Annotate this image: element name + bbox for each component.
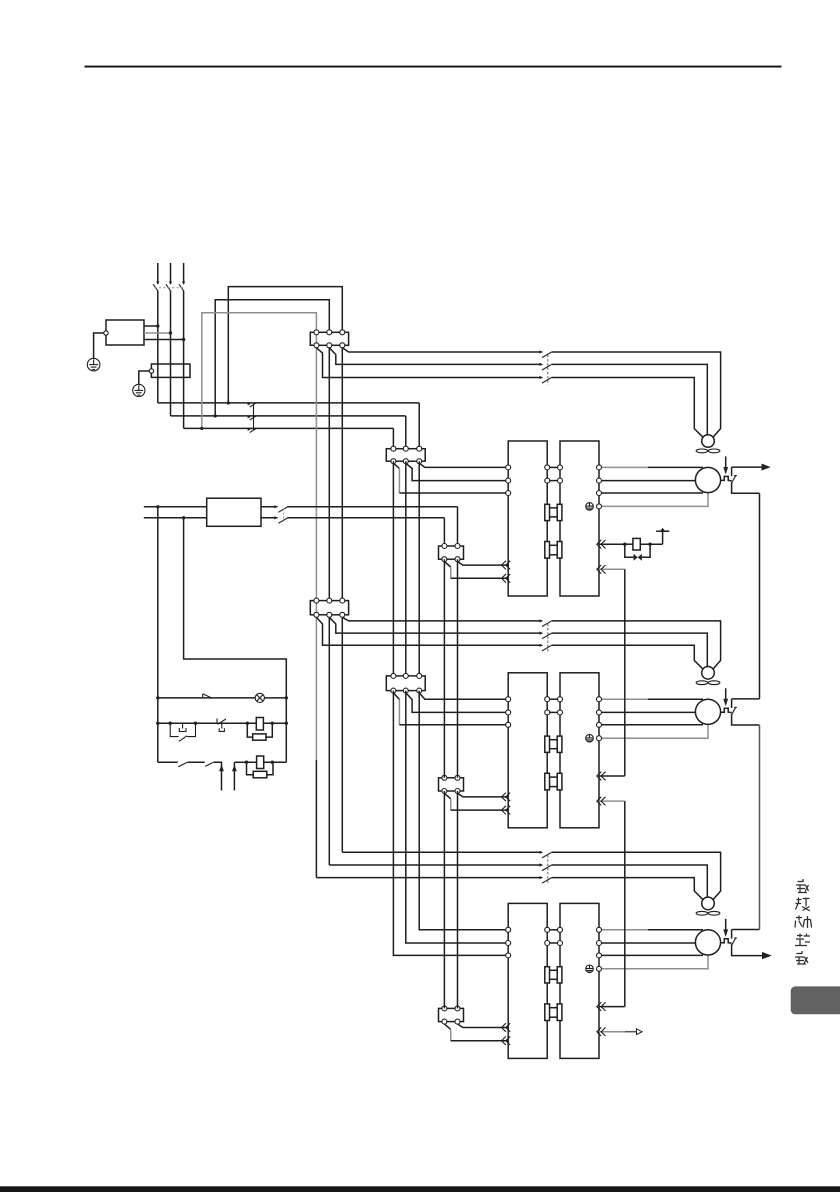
TB3 terminals (314, 598, 345, 617)
vertical chapter label 接线和连接 (795, 879, 812, 964)
unit1 run output arrow (760, 466, 763, 468)
ground symbol 1 (87, 358, 100, 371)
right margin tab (791, 986, 840, 1014)
phase bus 1 horizontal (158, 402, 419, 404)
inter-unit run feed: unit2 to unit3 (759, 725, 761, 930)
controller switch linkage (dashed) (283, 509, 285, 522)
wire A continues below TB2 (341, 345, 343, 600)
rung2 pressure switch 2 (217, 719, 226, 732)
junction dots (156, 324, 652, 764)
wire B continues below TB2 (328, 345, 330, 600)
controller box (207, 498, 261, 526)
TB1 terminals (391, 446, 422, 464)
incoming phase line L2 (170, 263, 172, 284)
control rung 3 (158, 761, 178, 763)
riser wire C to bundle (gray) (202, 313, 317, 615)
pressure sensor input arrows (219, 765, 224, 772)
TB3 wire to unit2 fan line 1 (342, 617, 539, 621)
TB1 wire to unit1 input 2 (406, 463, 508, 480)
unit3 thermostat chain tail with open arrow (625, 1031, 637, 1033)
noise filter box 1 (106, 320, 144, 345)
TB3 wire to unit2 fan line 3 (316, 617, 539, 645)
frame connection T-bar (662, 531, 664, 544)
riser wire B to bundle (215, 300, 329, 416)
inter-unit run feed: unit1 to unit2 (759, 493, 761, 699)
relay coil 2 (257, 756, 264, 769)
TB3 wire to unit2 fan line 2 (329, 617, 539, 633)
thermal fuse bypass loop (625, 544, 634, 557)
TB2 wire to fan line 3 (316, 348, 539, 378)
unit1 fan wires to funnel (552, 352, 721, 437)
thermostat element (633, 538, 640, 550)
TB1 wire to unit1 input 3 (gray riser) (393, 463, 399, 468)
phase bus 2 horizontal (171, 415, 406, 417)
TB4 wire to unit2 input 1 (419, 693, 508, 700)
unit2 fan wires to funnel (552, 621, 721, 669)
top rule (85, 66, 782, 68)
bottom page edge bar (0, 1186, 840, 1192)
pilot lamp (255, 693, 264, 702)
TB1 wire to unit1 input 1 (419, 463, 508, 467)
box1 wire to L1 (144, 325, 158, 327)
terminal block TB4 (386, 676, 425, 691)
box1 wire to L3 (144, 339, 184, 341)
control left rail (157, 507, 159, 762)
box2 earth wire (139, 371, 149, 384)
phase bus drop 2 to TB1 (405, 416, 407, 449)
phase bus drop 1 to TB1 (418, 403, 420, 449)
compressor unit 3 (439, 897, 760, 1058)
controller output line 2 with switch (261, 517, 278, 519)
box1 wire to L2 (gray) (144, 332, 171, 334)
relay coil 1 (256, 718, 263, 731)
terminal block TB3 (310, 601, 348, 615)
unit1 thermostat circuit (625, 543, 633, 545)
phase bus 3 horizontal (184, 427, 394, 429)
TB2 wire to fan line 2 (329, 348, 539, 365)
fan switch trio unit3 (540, 851, 552, 885)
box1 earth wire (94, 333, 104, 358)
fan switch trio unit2 (540, 619, 552, 652)
control chain verticals block5b to block5c (443, 791, 445, 1008)
TB4 wire to unit2 input 3 (gray riser) (393, 693, 399, 700)
rung2 resistor branch (247, 723, 252, 737)
rung2 pressure switch 1 (parallel bypass) (170, 723, 195, 741)
TB4 terminals (391, 673, 422, 693)
TB4 wire to unit2 input 2 (406, 693, 508, 713)
unit3 fan wires to funnel (552, 852, 721, 899)
TB1 to TB4 verticals (392, 461, 394, 676)
ground symbol 2 (133, 384, 145, 396)
control right rail feed (184, 518, 287, 762)
TB2 terminals (314, 330, 345, 348)
control feed stub line 2 (144, 517, 207, 519)
main switch linkage (dashed) (155, 287, 184, 289)
box1 earth terminal (104, 331, 108, 335)
incoming phase line L3 (183, 263, 185, 284)
thermostat chain: unit1 to unit2 (624, 569, 626, 776)
controller output line 1 with switch (261, 506, 278, 508)
unit3 run output arrow (760, 955, 763, 957)
terminal block TB2 (310, 332, 348, 345)
incoming phase line L1 (157, 263, 159, 284)
compressor unit 1 (439, 435, 760, 596)
control rung 2 (158, 722, 256, 724)
fan switch trio unit1 (540, 350, 552, 384)
thermostat chain: unit2 to unit3 (624, 801, 626, 1007)
rung1 switch (202, 694, 204, 698)
noise filter box 2 (151, 364, 190, 377)
rung3 resistor branch (247, 762, 254, 775)
compressor unit 2 (439, 667, 760, 828)
control rung 1 (pilot lamp) (158, 697, 255, 699)
control feed stub line 1 (144, 506, 207, 508)
thermal fuse symbol (634, 554, 638, 561)
TB2 wire to fan line 1 (342, 348, 539, 352)
breaker trio on phase buses (248, 402, 257, 433)
control chain verticals block5 to block5b (443, 559, 445, 778)
box2 earth terminal (149, 369, 153, 373)
terminal block TB1 (386, 449, 425, 462)
phase bus drop 3 to TB1 (392, 428, 394, 448)
riser wire A to bundle (228, 287, 342, 403)
TB4 verticals down to unit3 inputs (419, 691, 508, 930)
unit3 fan feed L-bends (342, 851, 539, 853)
